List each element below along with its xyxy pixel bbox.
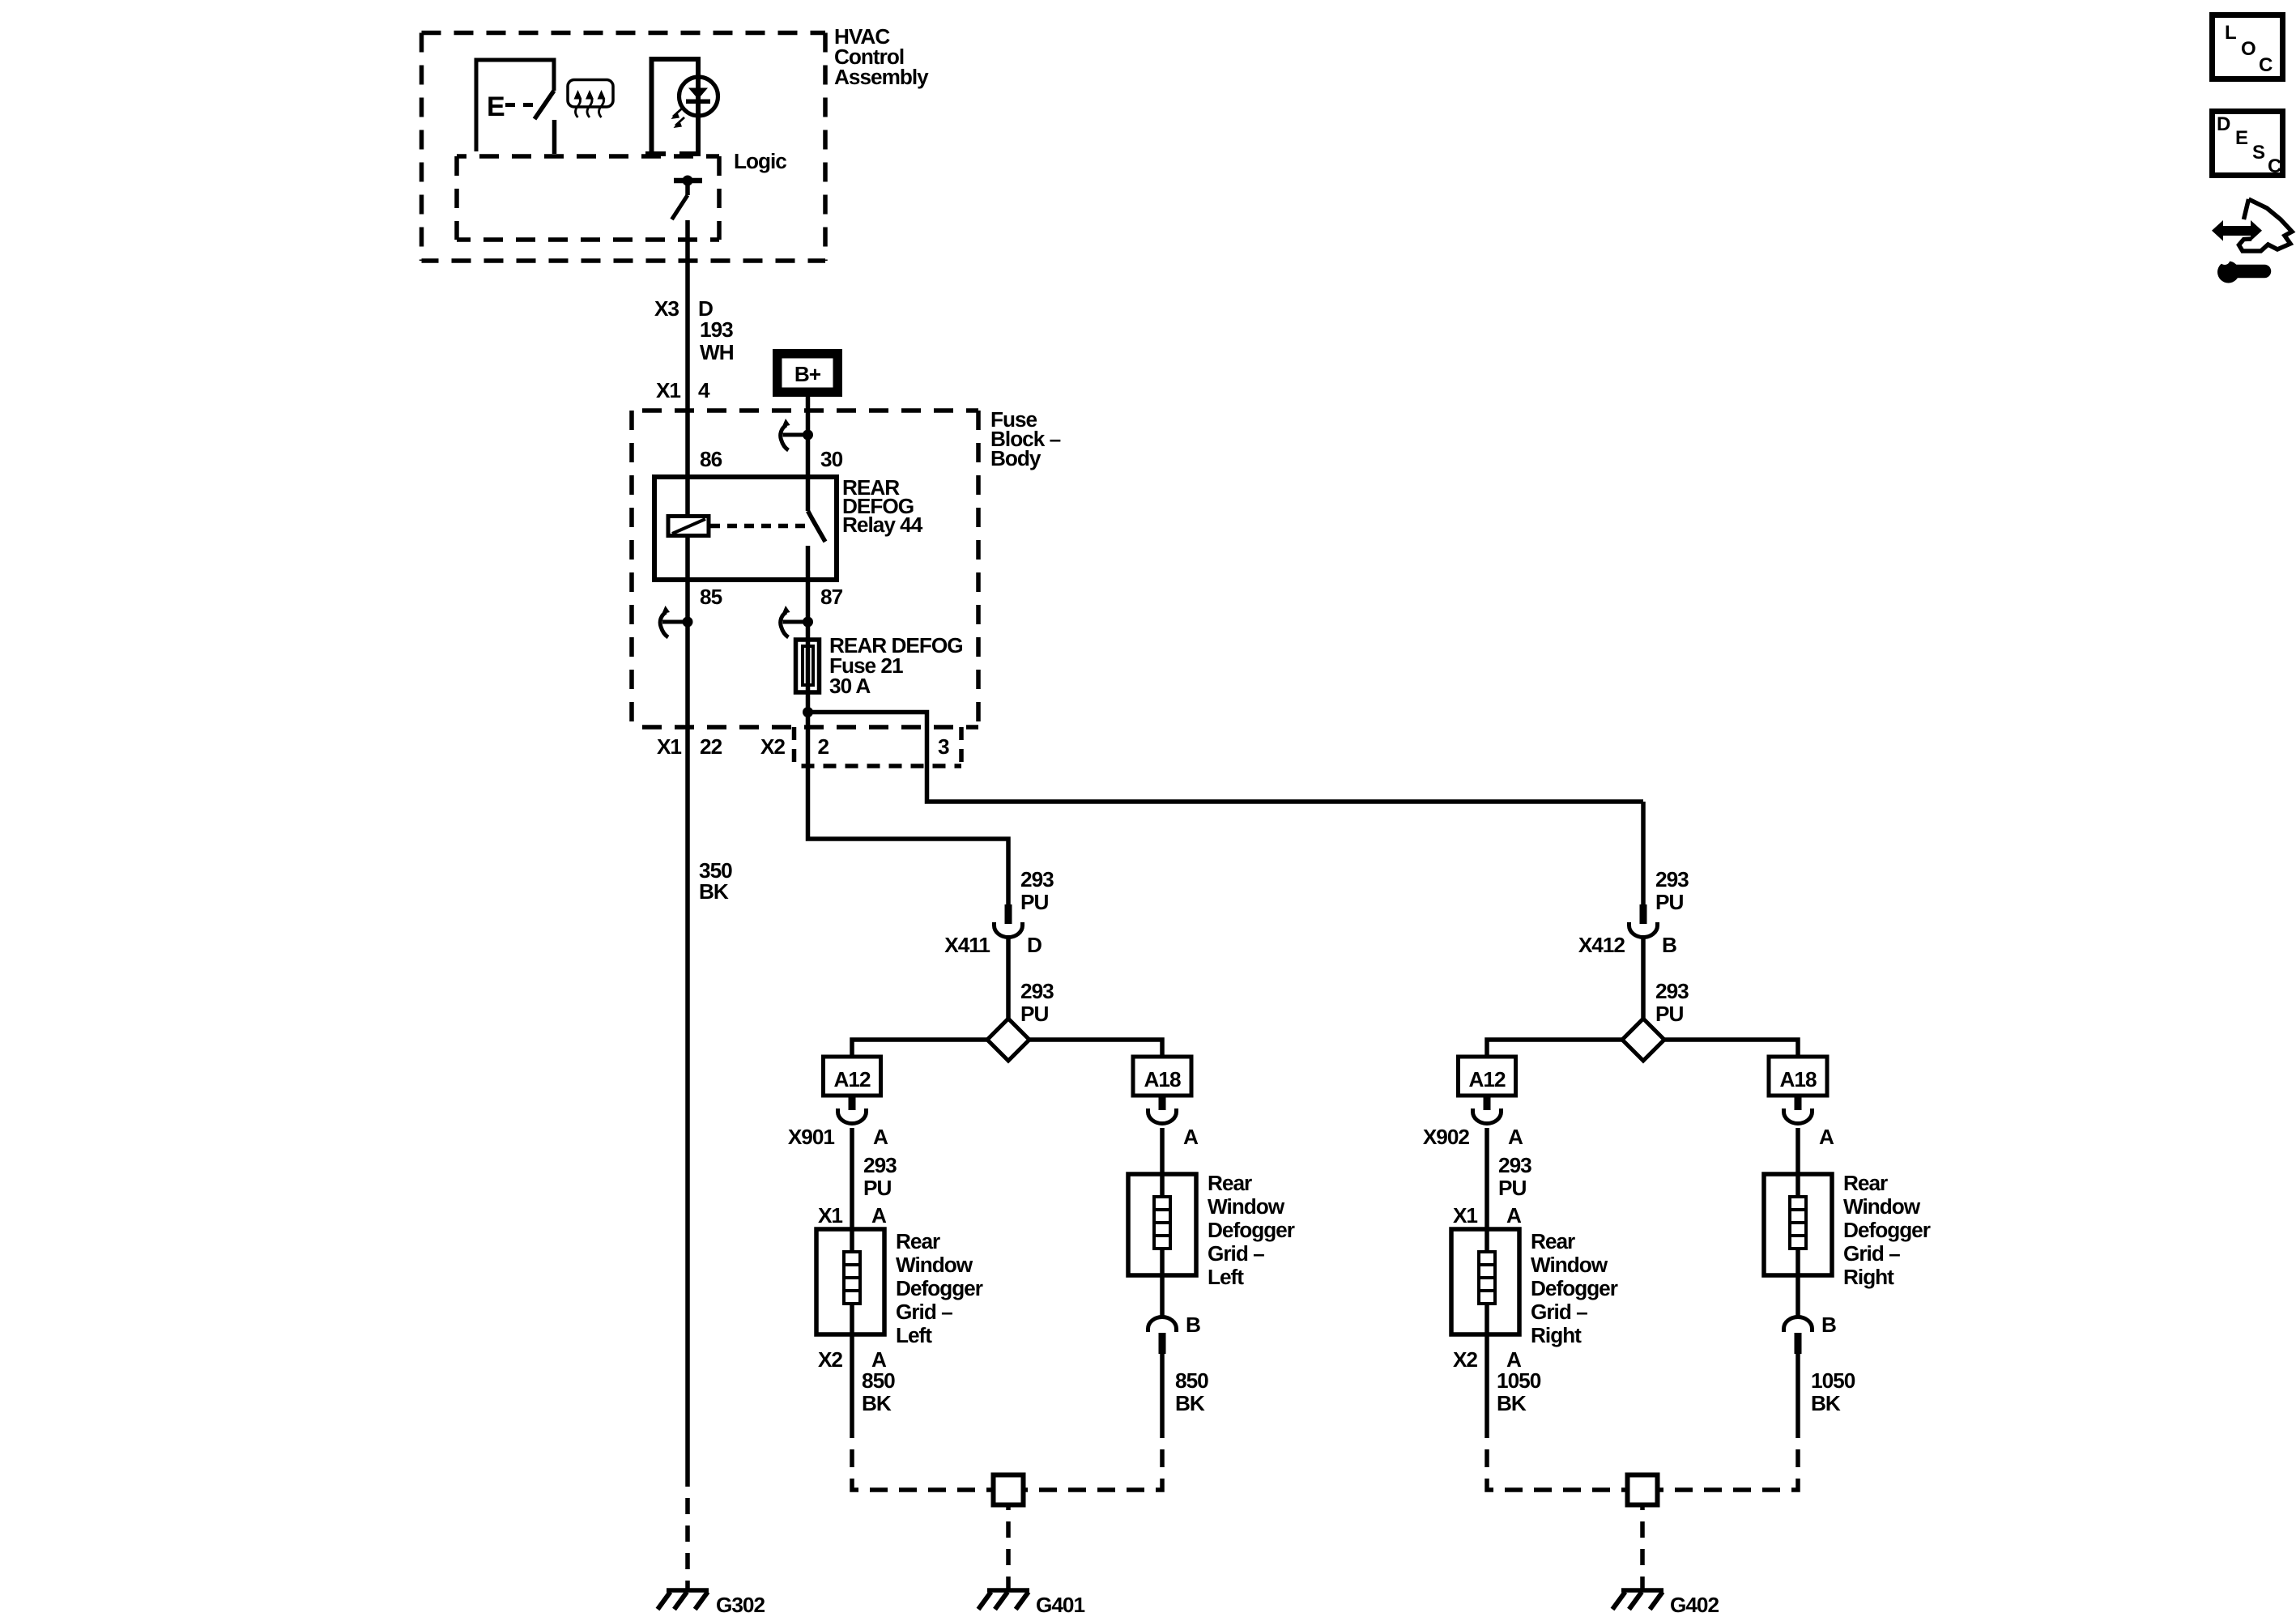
ground junction box	[994, 1475, 1024, 1505]
wire fuse to X2 pin 2 and X411 feed	[808, 713, 1009, 905]
svg-text:A12: A12	[1468, 1067, 1505, 1091]
svg-text:D: D	[2217, 113, 2230, 135]
svg-text:A18: A18	[1779, 1067, 1816, 1091]
svg-text:C: C	[2268, 155, 2281, 177]
in-line connector pin A (grid 2)	[1148, 1096, 1177, 1124]
wire connector B to ground (solid)	[1160, 1354, 1165, 1420]
svg-text:BK: BK	[699, 879, 729, 904]
svg-text:BK: BK	[1497, 1391, 1527, 1415]
grid element symbol	[844, 1252, 860, 1304]
terminal A12 box	[824, 1057, 881, 1096]
svg-text:293: 293	[1655, 979, 1689, 1003]
wire connector to grid 2	[1795, 1128, 1800, 1174]
X2 connector dashed box	[794, 727, 962, 766]
splice diamond	[987, 1019, 1029, 1061]
svg-text:Grid –: Grid –	[1208, 1241, 1264, 1266]
svg-text:1050: 1050	[1497, 1368, 1541, 1393]
svg-text:G402: G402	[1670, 1593, 1719, 1617]
svg-text:85: 85	[700, 585, 722, 609]
logic output switch	[672, 176, 703, 220]
svg-text:X1: X1	[657, 734, 681, 759]
svg-text:B: B	[1821, 1313, 1836, 1337]
svg-text:Rear: Rear	[1208, 1171, 1252, 1195]
svg-text:22: 22	[700, 734, 722, 759]
terminal hook at relay pin 85	[660, 606, 692, 637]
svg-text:193: 193	[700, 317, 733, 342]
rear window defogger grid box (left, 2)	[1128, 1174, 1196, 1275]
splice branch wires to A12/A18	[1487, 1040, 1798, 1057]
svg-text:X902: X902	[1423, 1125, 1470, 1149]
svg-text:30: 30	[820, 447, 843, 471]
svg-text:BK: BK	[862, 1391, 892, 1415]
wire X412 to splice	[1641, 937, 1646, 1019]
terminal A12 box	[1459, 1057, 1516, 1096]
svg-text:X1: X1	[656, 378, 680, 402]
rear window defogger grid box (right, 2)	[1764, 1174, 1832, 1275]
ground G401	[978, 1590, 1029, 1610]
wire 193 WH (HVAC X3-D to relay 86)	[685, 220, 690, 517]
svg-text:C: C	[2259, 54, 2273, 76]
svg-text:293: 293	[1498, 1153, 1531, 1177]
svg-text:Right: Right	[1843, 1265, 1894, 1289]
svg-text:WH: WH	[700, 340, 734, 364]
switch lower contact	[552, 120, 557, 154]
wire grid X2-A to ground (solid)	[850, 1334, 854, 1420]
component locator tool icon	[2212, 199, 2292, 283]
svg-text:Left: Left	[1208, 1265, 1244, 1289]
svg-text:A12: A12	[833, 1067, 870, 1091]
terminal hook at relay pin 30	[781, 419, 813, 450]
relay coil	[668, 517, 709, 536]
rear window defogger grid box (right, X1)	[1451, 1229, 1519, 1334]
svg-text:D: D	[1027, 933, 1042, 957]
svg-text:X411: X411	[944, 933, 990, 957]
fuse 21 symbol	[796, 640, 820, 692]
svg-text:E: E	[2235, 127, 2248, 149]
terminal A18 box	[1133, 1057, 1191, 1096]
B+ battery feed symbol	[773, 349, 842, 397]
wire X411 to splice	[1006, 937, 1011, 1019]
svg-text:X412: X412	[1578, 933, 1625, 957]
svg-text:B: B	[1662, 933, 1676, 957]
svg-text:293: 293	[1020, 979, 1054, 1003]
Logic dashed box	[457, 156, 719, 240]
svg-text:293: 293	[863, 1153, 897, 1177]
LED emission arrows	[671, 109, 685, 128]
svg-text:X901: X901	[788, 1125, 835, 1149]
wire through fuse	[806, 637, 811, 713]
svg-text:L: L	[2225, 22, 2236, 44]
svg-text:86: 86	[700, 447, 722, 471]
svg-text:850: 850	[862, 1368, 895, 1393]
svg-text:Defogger: Defogger	[1208, 1218, 1295, 1242]
wire to ground junction (dashed, right)	[1658, 1420, 1799, 1490]
svg-text:X1: X1	[818, 1203, 842, 1228]
svg-text:A: A	[1183, 1125, 1199, 1149]
svg-text:PU: PU	[1655, 1002, 1683, 1026]
svg-text:293: 293	[1655, 867, 1689, 891]
relay fixed contact 87	[806, 546, 811, 580]
svg-text:A: A	[1819, 1125, 1834, 1149]
indicator LED box	[645, 59, 701, 154]
svg-text:Rear: Rear	[896, 1229, 940, 1253]
wire to ground junction (dashed, right)	[1024, 1420, 1163, 1490]
svg-text:PU: PU	[1655, 890, 1683, 914]
svg-text:Window: Window	[1208, 1194, 1285, 1219]
wire connector to grid X1-A	[1485, 1128, 1489, 1229]
wire through grid 2	[1795, 1174, 1800, 1275]
in-line connector X412 pin B	[1629, 904, 1658, 938]
in-line connector X901 pin A	[838, 1096, 867, 1124]
svg-text:A: A	[873, 1125, 888, 1149]
wire connector B to ground (solid)	[1795, 1354, 1800, 1420]
splice branch wires to A12/A18	[852, 1040, 1162, 1057]
rear window defogger grid box (left, X1)	[816, 1229, 884, 1334]
svg-text:Grid –: Grid –	[1531, 1300, 1587, 1324]
ground G402	[1612, 1590, 1663, 1610]
wire grid to ground junction (dashed)	[1487, 1420, 1628, 1490]
svg-text:Grid –: Grid –	[1843, 1241, 1900, 1266]
svg-text:G401: G401	[1036, 1593, 1084, 1617]
svg-text:E: E	[487, 91, 505, 122]
wire relay 85 to ground (350 BK upper part)	[685, 536, 690, 1481]
svg-text:2: 2	[818, 734, 829, 759]
grid element symbol 2	[1154, 1197, 1170, 1249]
wire connector to grid X1-A	[850, 1128, 854, 1229]
relay 44 box	[654, 477, 837, 580]
svg-text:PU: PU	[1020, 1002, 1048, 1026]
wire feed down to X412	[1641, 802, 1646, 904]
LED diode symbol	[686, 88, 710, 104]
svg-text:Defogger: Defogger	[896, 1276, 983, 1300]
svg-text:Defogger: Defogger	[1843, 1218, 1931, 1242]
svg-text:X3: X3	[654, 296, 679, 321]
svg-text:1050: 1050	[1811, 1368, 1855, 1393]
svg-text:Window: Window	[896, 1253, 973, 1277]
svg-text:Rear: Rear	[1843, 1171, 1888, 1195]
svg-text:Body: Body	[990, 446, 1042, 470]
svg-text:A: A	[871, 1203, 887, 1228]
wire through grid 2	[1160, 1174, 1165, 1275]
svg-text:B: B	[1186, 1313, 1200, 1337]
svg-text:3: 3	[938, 734, 949, 759]
relay switch lever	[808, 511, 826, 542]
junction dot below fuse	[803, 707, 813, 717]
switch lever	[535, 91, 554, 119]
svg-text:30 A: 30 A	[829, 674, 871, 698]
wire 350 BK dashed lower part	[685, 1480, 690, 1589]
defog switch box (push-button)	[476, 60, 554, 151]
wire fuse to X2 pin 3 and X412 feed	[808, 713, 1644, 802]
svg-text:PU: PU	[1498, 1176, 1526, 1200]
wire grid 2 to connector B	[1160, 1275, 1165, 1318]
in-line connector pin B	[1784, 1317, 1813, 1355]
svg-text:Window: Window	[1531, 1253, 1608, 1277]
wire B+ to relay 30	[806, 397, 811, 511]
svg-text:Assembly: Assembly	[834, 65, 929, 89]
svg-text:X2: X2	[818, 1347, 842, 1372]
svg-text:BK: BK	[1175, 1391, 1205, 1415]
wire connector to grid 2	[1160, 1128, 1165, 1174]
svg-text:4: 4	[698, 378, 710, 402]
svg-text:293: 293	[1020, 867, 1054, 891]
svg-text:Grid –: Grid –	[896, 1300, 952, 1324]
svg-text:X2: X2	[1453, 1347, 1477, 1372]
terminal hook at relay pin 87	[781, 606, 813, 637]
in-line connector X411 pin D	[995, 904, 1023, 938]
switch actuator dashed link	[505, 103, 536, 107]
svg-text:Right: Right	[1531, 1323, 1582, 1347]
defrost heater indicator icon	[568, 80, 613, 118]
svg-text:BK: BK	[1811, 1391, 1841, 1415]
HVAC Control Assembly dashed box	[422, 33, 826, 262]
relay actuation dashed link	[710, 524, 810, 529]
in-line connector pin A (grid 2)	[1784, 1096, 1813, 1124]
svg-text:Rear: Rear	[1531, 1229, 1575, 1253]
svg-text:X2: X2	[760, 734, 785, 759]
LOC icon box	[2213, 15, 2283, 79]
svg-text:O: O	[2241, 38, 2256, 60]
in-line connector X902 pin A	[1473, 1096, 1502, 1124]
DESC icon box	[2213, 112, 2283, 178]
wire grid to ground junction (dashed)	[852, 1420, 994, 1490]
svg-text:Window: Window	[1843, 1194, 1921, 1219]
svg-text:A18: A18	[1144, 1067, 1180, 1091]
svg-text:A: A	[1506, 1203, 1522, 1228]
splice diamond	[1622, 1019, 1664, 1061]
svg-text:A: A	[1508, 1125, 1523, 1149]
svg-text:B+: B+	[794, 362, 821, 386]
wire through grid	[850, 1229, 854, 1334]
svg-text:G302: G302	[716, 1593, 765, 1617]
svg-text:Defogger: Defogger	[1531, 1276, 1618, 1300]
ground junction box	[1628, 1475, 1658, 1505]
svg-text:S: S	[2252, 142, 2265, 164]
svg-text:850: 850	[1175, 1368, 1208, 1393]
ground G302	[658, 1590, 709, 1610]
grid element symbol	[1479, 1252, 1495, 1304]
wire grid 2 to connector B	[1795, 1275, 1800, 1318]
svg-text:Left: Left	[896, 1323, 932, 1347]
svg-text:X1: X1	[1453, 1203, 1477, 1228]
svg-text:PU: PU	[863, 1176, 891, 1200]
svg-text:Logic: Logic	[734, 149, 786, 173]
dashed wire junction to ground	[1640, 1505, 1645, 1589]
wire through grid	[1485, 1229, 1489, 1334]
LED circle	[679, 77, 718, 116]
in-line connector pin B	[1148, 1317, 1177, 1355]
Fuse Block - Body dashed box	[632, 411, 978, 727]
svg-text:PU: PU	[1020, 890, 1048, 914]
svg-text:87: 87	[820, 585, 843, 609]
terminal A18 box	[1769, 1057, 1827, 1096]
wire grid X2-A to ground (solid)	[1485, 1334, 1489, 1420]
grid element symbol 2	[1790, 1197, 1806, 1249]
svg-text:Relay 44: Relay 44	[842, 513, 923, 537]
wire relay 87 to fuse	[806, 580, 811, 637]
dashed wire junction to ground	[1006, 1505, 1011, 1589]
